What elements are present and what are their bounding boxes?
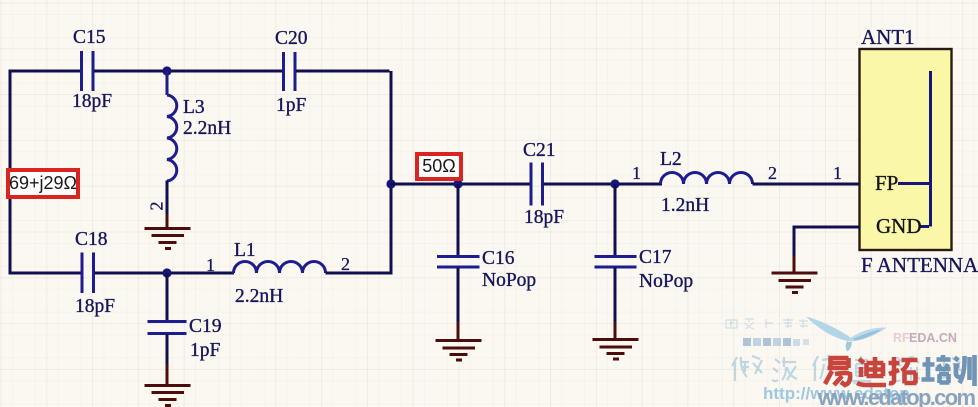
watermark text www.edatop.com (817, 385, 976, 407)
value C21 18pF (524, 208, 564, 228)
wire bottom row left to C18 (9, 272, 83, 275)
node junction top (C15/L3/C20) (162, 66, 171, 75)
watermark bird logo (806, 317, 887, 352)
watermark script char lun (894, 357, 920, 381)
watermark script char bo (772, 357, 797, 381)
wire C19 to ground (166, 334, 169, 366)
ground C17 (593, 322, 639, 359)
value L2 1.2nH (661, 196, 709, 216)
capacitor C20 (284, 52, 296, 91)
wire ANT1 GND pin to ground (793, 226, 861, 259)
wire C19 branch down (166, 273, 169, 321)
ANT1 internal antenna line (898, 71, 931, 227)
value L1 2.2nH (235, 287, 283, 307)
wire L2 pin2 to ANT1 FP pin (753, 183, 861, 186)
designator C18 (75, 230, 108, 250)
node junction C16 tap (453, 179, 462, 188)
ground ANT1 (772, 256, 818, 293)
watermark script char fang (813, 355, 836, 381)
svg-text:EDA.CN: EDA.CN (909, 331, 957, 345)
svg-text:RF: RF (893, 331, 910, 345)
designator C16 (482, 249, 515, 269)
ground L3 (145, 214, 191, 249)
watermark text http url (763, 384, 910, 403)
inductor L2 (661, 173, 753, 185)
designator L2 (660, 150, 682, 170)
wire top row left (input to C15) (9, 70, 82, 73)
pin 2 of L3 (rotated) (148, 202, 166, 211)
watermark small text wang-you-shang-chuan-yu (726, 318, 808, 329)
designator L1 (234, 241, 256, 261)
value C19 1pF (190, 341, 220, 361)
watermark script char wei (732, 356, 762, 381)
wire C17 to ground (614, 268, 617, 325)
svg-text:www.edatop.com: www.edatop.com (817, 385, 976, 407)
wire C21 to L2 node (544, 183, 663, 186)
ground C19 (145, 364, 191, 406)
value L3 2.2nH (183, 119, 231, 139)
wire C16 to ground (457, 268, 460, 325)
wire L3 pin2 to ground (166, 181, 169, 216)
inductor L3 (167, 71, 177, 181)
capacitor C16 (437, 257, 480, 268)
designator C17 (639, 248, 672, 268)
component body ANT1 (860, 49, 952, 250)
designator C20 (275, 29, 308, 49)
node junction 50ohm (C20/L1 column) (386, 179, 395, 188)
wire input stub vertical lower (9, 199, 12, 275)
capacitor C19 (148, 322, 187, 334)
capacitor C18 (82, 253, 94, 294)
designator C15 (73, 28, 106, 48)
inductor L1 (234, 262, 326, 274)
node junction C17/L2 (610, 179, 619, 188)
designator C21 (523, 141, 556, 161)
value C20 1pF (276, 96, 306, 116)
comment F ANTENNA (861, 255, 978, 276)
ground C16 (436, 322, 482, 360)
watermark red char tuo (889, 357, 918, 384)
watermark text RFEDA.CN (893, 331, 957, 345)
node junction bottom (C18/C19/L1) (162, 268, 171, 277)
wire C15 to C20 (94, 70, 282, 73)
capacitor C15 (82, 51, 94, 91)
wire C17 branch down (614, 184, 617, 256)
pin name FP (875, 173, 898, 194)
pin name GND (876, 216, 922, 237)
value C18 18pF (75, 297, 115, 317)
watermark blue squares row (743, 338, 809, 346)
node label 69+j29ohm (red box) (6, 168, 80, 199)
value C15 18pF (72, 92, 112, 112)
wire C18 to L1 (95, 272, 235, 275)
watermark script char zhen (852, 356, 871, 384)
capacitor C21 (531, 163, 543, 206)
pin 1 of L2 (632, 164, 641, 182)
watermark red char di (857, 357, 886, 385)
watermark blue char xun (954, 355, 975, 386)
wire C20 right then down to 50ohm node (296, 71, 391, 184)
pin 1 of L1 (206, 256, 215, 274)
watermark script char tan (939, 356, 961, 378)
designator L3 (183, 98, 205, 118)
pin 2 of L1 (341, 255, 350, 273)
designator C19 (189, 317, 222, 337)
wire C16 branch down (457, 184, 460, 256)
capacitor C17 (595, 257, 637, 268)
wire 50ohm node to C21 (391, 183, 531, 186)
value C16 NoPop (482, 271, 536, 291)
watermark blue char pei (922, 355, 951, 383)
node label 50ohm (red box) (415, 152, 463, 181)
designator ANT1 (861, 27, 915, 48)
pin 1 of ANT1 (833, 164, 842, 182)
watermark red char yi (825, 358, 850, 385)
value C17 NoPop (639, 272, 693, 292)
wire input stub vertical upper (9, 70, 12, 169)
wire L1 pin2 up to 50ohm node (326, 184, 392, 275)
pin 2 of L2 (768, 164, 777, 182)
